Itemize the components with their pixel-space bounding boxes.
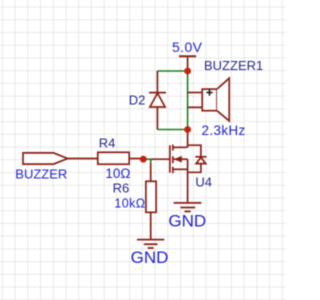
- svg-text:10Ω: 10Ω: [105, 166, 130, 181]
- svg-text:5.0V: 5.0V: [172, 39, 203, 55]
- svg-text:R4: R4: [99, 136, 116, 151]
- svg-text:2.3kHz: 2.3kHz: [202, 123, 246, 138]
- svg-text:D2: D2: [129, 93, 146, 108]
- svg-text:10kΩ: 10kΩ: [114, 197, 145, 211]
- svg-text:R6: R6: [113, 181, 130, 196]
- svg-text:BUZZER: BUZZER: [15, 166, 67, 181]
- svg-text:BUZZER1: BUZZER1: [204, 58, 263, 73]
- svg-text:GND: GND: [168, 212, 206, 231]
- svg-text:GND: GND: [131, 248, 169, 267]
- svg-text:U4: U4: [195, 174, 212, 189]
